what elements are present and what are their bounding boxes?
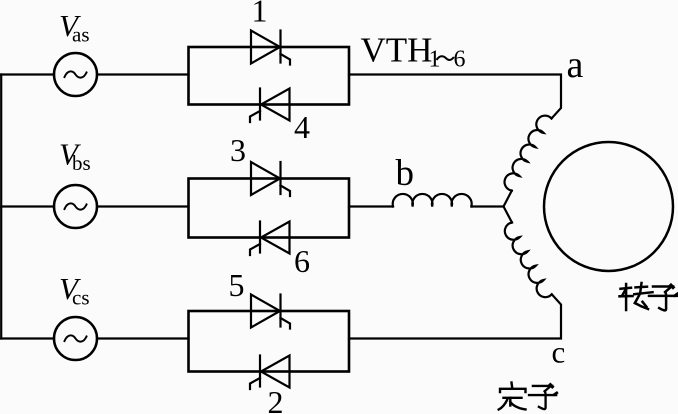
svg-text:4: 4 (294, 109, 310, 145)
svg-text:1: 1 (252, 0, 268, 29)
svg-text:5: 5 (229, 267, 245, 303)
svg-text:as: as (72, 23, 90, 47)
svg-text:VTH: VTH (361, 31, 433, 70)
svg-text:1: 1 (429, 47, 441, 73)
svg-text:cs: cs (72, 286, 90, 310)
svg-text:a: a (567, 44, 584, 86)
svg-text:2: 2 (268, 384, 284, 414)
svg-text:3: 3 (230, 132, 246, 168)
svg-text:bs: bs (72, 151, 91, 175)
svg-text:b: b (396, 153, 415, 194)
svg-text:6: 6 (454, 47, 466, 73)
svg-text:c: c (552, 335, 566, 370)
svg-text:6: 6 (294, 243, 310, 279)
